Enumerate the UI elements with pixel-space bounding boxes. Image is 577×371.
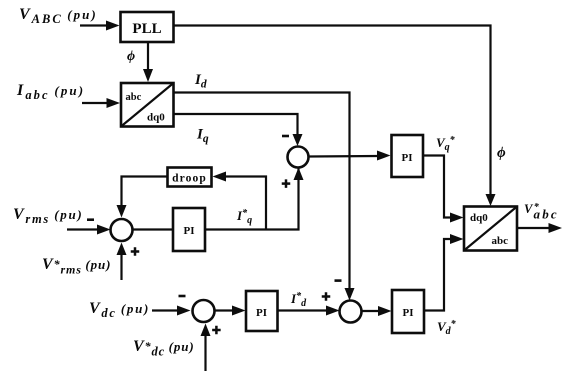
label minus at q-axis summer top [282,135,289,138]
wire V_abc* output [517,223,562,233]
wire V_ABC input into PLL [80,21,120,31]
label plus at rms summer bottom [131,247,140,256]
label I_q* [236,208,252,226]
svg-text:dq0: dq0 [147,112,165,124]
label V_rms* reference [42,256,111,277]
label V_rms(pu) [13,206,83,226]
wire I_d* from PI_dc to d-summer [278,306,340,316]
label plus at q-summer bottom [282,179,291,188]
wire d-summer to PI_d [362,306,392,316]
block PI controller q-axis [392,135,424,177]
wire I_q* from PI_rms up to q-summer plus droop branch [205,168,304,230]
label I_q [196,127,209,146]
svg-text:abc: abc [492,235,509,247]
wire droop feedback branch [213,172,267,230]
label phi (below PLL) [127,49,135,64]
wire dc summer to PI_dc [215,306,246,316]
label V_q* [436,135,456,153]
block PLL U1 [121,12,174,42]
svg-text:dq0: dq0 [470,212,488,224]
wire V_d* from PI_d to dq0-abc [424,234,464,311]
label I_d [194,72,207,91]
wire I_d from abc-dq0 down to d-axis summer [174,93,355,301]
svg-text:PI: PI [403,307,414,319]
summing junction d-axis [340,301,362,323]
wire V_dc* input into dc summer bottom [201,324,211,371]
block PI controller d-axis [392,290,424,333]
svg-text:PI: PI [402,152,413,164]
svg-text:PLL: PLL [132,21,161,37]
label I_abc(pu) [16,82,85,102]
svg-text:abc: abc [126,92,142,103]
wire rms summer to PI_rms [133,228,174,230]
label minus at d-axis summer top [335,279,342,282]
label minus at rms summer left [87,218,94,221]
wire V_rms* input into rms summer bottom [117,243,127,281]
label plus at d-summer left [322,292,331,301]
label phi (right) [497,145,506,161]
label V_d* [437,319,457,337]
label V_abc* output [524,202,559,222]
label V_dc(pu) [89,300,150,320]
wire V_q* from PI_q to dq0-abc [423,156,464,223]
block PI controller dc [246,291,278,331]
block droop [168,168,212,187]
svg-text:ϕ: ϕ [497,145,506,161]
wire I_abc input into abc-dq0 [82,98,120,108]
wire I_q from abc-dq0 down to q-axis summer [174,114,303,146]
wire droop output down into rms summer [117,177,168,218]
block dq0 to abc transform [464,207,517,251]
label minus at dc summer left [179,295,186,298]
label V_ABC(pu) [19,6,98,26]
svg-text:ϕ: ϕ [127,49,135,64]
block abc to dq0 transform [121,83,174,127]
wire q-summer to PI_q [309,151,391,161]
wire PLL phi right to dq0-abc [174,26,496,207]
svg-text:PI: PI [256,307,267,319]
wire V_rms input into rms summer [67,225,111,235]
svg-text:PI: PI [184,225,195,237]
wire PLL phi down into abc-dq0 [143,42,153,82]
svg-text:droop: droop [172,173,207,185]
wire V_dc input into dc summer [152,306,191,316]
block PI controller rms [173,208,205,251]
summing junction rms [111,219,133,241]
label V_dc* reference [133,338,195,359]
label I_d* [290,291,307,309]
label plus at dc summer bottom [212,326,221,335]
summing junction dc [193,300,215,322]
summing junction q-axis [288,147,309,168]
